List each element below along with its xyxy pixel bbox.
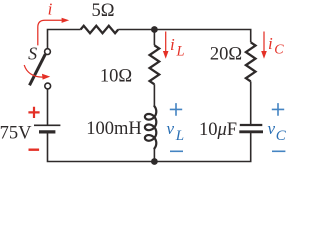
svg-text:20Ω: 20Ω: [210, 45, 242, 65]
wire inductor bottom to bottom rail: [153, 148, 155, 162]
svg-text:C: C: [274, 42, 284, 57]
battery minus sign: [29, 148, 40, 150]
svg-text:L: L: [176, 43, 185, 59]
resistor R1 5ohm (horizontal zigzag): [81, 26, 119, 33]
switch closing arrow (red arc): [24, 65, 42, 77]
wire 20ohm to capacitor: [250, 81, 252, 124]
svg-text:75V: 75V: [0, 124, 32, 144]
battery V1 75V long plate: [34, 124, 60, 126]
node B junction dot bottom: [151, 158, 158, 165]
wire capacitor bottom to bottom-right corner and bottom rail: [48, 133, 251, 162]
svg-text:5Ω: 5Ω: [92, 1, 115, 21]
switch S top terminal: [45, 49, 51, 55]
capacitor C1 10uF top plate: [240, 124, 262, 126]
svg-text:100mH: 100mH: [86, 119, 142, 139]
svg-text:i: i: [170, 35, 175, 54]
resistor R3 20ohm (vertical zigzag): [246, 42, 256, 81]
svg-text:v: v: [268, 119, 276, 138]
voltage vL plus sign: [170, 103, 182, 116]
current arrow i (red, over switch corner): [38, 20, 62, 45]
svg-text:v: v: [167, 119, 175, 138]
battery V1 75V short plate: [39, 130, 55, 133]
voltage vL minus sign: [170, 150, 183, 152]
current arrow iC (red, down): [263, 32, 265, 52]
resistor R2 10ohm (vertical zigzag): [150, 45, 160, 84]
voltage vC minus sign: [272, 150, 285, 152]
svg-text:S: S: [28, 43, 37, 63]
switch S bottom terminal: [45, 83, 51, 89]
current arrow iL (red, down): [165, 32, 167, 52]
wire 10ohm to inductor: [153, 84, 155, 107]
svg-text:C: C: [276, 128, 287, 144]
svg-text:i: i: [268, 34, 273, 53]
switch S blade: [30, 54, 46, 85]
voltage vC plus sign: [272, 103, 284, 116]
capacitor C1 10uF bottom plate: [239, 130, 263, 133]
node A junction dot top: [151, 26, 158, 33]
svg-text:10μF: 10μF: [199, 120, 237, 140]
wire top right of 5ohm to top-right corner down to 20ohm: [118, 30, 251, 43]
svg-text:i: i: [48, 0, 53, 19]
svg-text:L: L: [175, 128, 184, 144]
wire top-left corner to switch: [48, 30, 81, 49]
wire node A down to 10ohm: [153, 30, 155, 46]
inductor L1 100mH coil: [145, 106, 156, 148]
battery plus sign: [28, 107, 39, 118]
wire battery top to switch bottom terminal: [47, 89, 49, 125]
svg-text:10Ω: 10Ω: [100, 67, 132, 87]
